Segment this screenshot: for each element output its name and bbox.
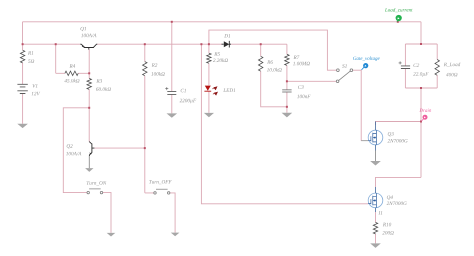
ground below Q2 <box>85 168 93 172</box>
ground below R10 <box>370 243 381 248</box>
label Turn_ON <box>87 181 107 185</box>
label Q2 <box>67 144 73 148</box>
label R3 <box>96 79 102 82</box>
wire load box <box>405 44 437 88</box>
label Q3 <box>388 132 394 136</box>
ground below C3 <box>282 113 293 118</box>
label Q2 value <box>66 152 81 156</box>
label C2 value <box>413 72 428 77</box>
label R5 value <box>213 58 228 62</box>
label R2 <box>152 63 158 66</box>
wire Turn_ON loop <box>63 108 89 193</box>
switch Turn_ON <box>87 189 103 194</box>
label Q4 value <box>387 202 407 206</box>
label Q4 <box>387 195 393 199</box>
wire top rail <box>23 22 422 44</box>
label R_Load value <box>446 73 457 77</box>
transistor Q2 <box>89 142 94 156</box>
label LED1 <box>223 88 235 91</box>
label C2 <box>413 63 419 66</box>
label R_Load <box>444 62 461 66</box>
resistor R2 <box>143 62 147 76</box>
resistor R3 <box>87 78 91 89</box>
resistor R5 <box>207 53 211 63</box>
resistor R7 <box>285 54 289 65</box>
wire Q3 source to ground <box>375 151 377 162</box>
wire bypass to S1 top throw <box>209 30 337 70</box>
label Load_current <box>385 8 413 12</box>
wire second rail middle segment <box>97 43 222 45</box>
battery V1 <box>17 84 27 93</box>
label C1 value <box>180 99 197 104</box>
wire R2 branch top <box>144 44 146 61</box>
resistor R_Load <box>435 60 439 76</box>
MOSFET Q4 <box>368 187 383 212</box>
resistor R4 <box>65 71 78 75</box>
transistor Q1 <box>80 44 97 49</box>
wire R6 branch <box>261 44 287 107</box>
label R6 <box>267 60 273 63</box>
wire second rail left segment <box>23 43 81 45</box>
resistor R1 <box>20 50 24 63</box>
capacitor C1 <box>165 87 176 94</box>
wire Q4 gate run <box>201 44 368 204</box>
wire node to S1 bottom throw <box>287 80 336 82</box>
label C3 <box>298 85 304 88</box>
ground below Q3 <box>370 161 381 166</box>
label Q3 value <box>388 139 408 143</box>
wire R4 branch <box>56 44 89 73</box>
capacitor C3 <box>282 90 291 92</box>
probe Drain <box>421 115 427 121</box>
label R10 <box>383 223 391 227</box>
ground below Turn_OFF <box>171 233 180 237</box>
ground below C1 <box>167 113 178 117</box>
switch S1 <box>336 69 352 83</box>
label Q1 value <box>81 34 96 38</box>
wire LED branch <box>208 44 210 113</box>
wire Q1 base to R3 <box>88 50 90 79</box>
probe Load_current <box>396 15 402 22</box>
ground below battery <box>17 124 28 128</box>
label Q1 <box>80 27 86 31</box>
label Gate_voltage <box>353 56 380 61</box>
wire Q2 emitter to ground <box>88 156 90 168</box>
diode D1 <box>222 41 232 48</box>
capacitor C2 <box>399 61 411 68</box>
wire S1 pole to Q3 gate <box>353 70 362 141</box>
wire R3 to Q2 collector <box>88 89 90 141</box>
label I1 <box>378 211 382 214</box>
probe Gate_voltage <box>362 63 369 70</box>
label C1 <box>181 89 186 92</box>
label R6 value <box>267 68 282 72</box>
label R3 value <box>96 87 111 91</box>
label R4 value <box>64 79 79 83</box>
wire R2 to Turn_OFF <box>145 76 154 193</box>
label D1 <box>224 34 230 37</box>
label R2 value <box>151 72 164 76</box>
label R1 value <box>28 59 34 62</box>
ground below Turn_ON <box>107 233 116 237</box>
wire Turn_ON to ground <box>103 193 111 233</box>
wire drain to Q3 <box>376 122 422 126</box>
resistor R6 <box>259 56 263 71</box>
wire Q4 source to R10 <box>375 212 377 243</box>
junction node dots <box>22 21 422 149</box>
label R1 <box>28 51 33 54</box>
label R4 <box>69 64 75 67</box>
wire Turn_OFF to ground <box>170 193 175 233</box>
wire C1 branch <box>171 22 173 114</box>
label R10 value <box>382 231 393 235</box>
LED LED1 <box>204 86 218 96</box>
label Drain <box>419 109 431 112</box>
label R7 value <box>293 62 310 66</box>
label C3 value <box>297 95 310 99</box>
wire second rail right of D1 <box>230 43 287 45</box>
label V1 value <box>31 92 40 96</box>
label R5 <box>214 52 220 55</box>
switch Turn_OFF <box>154 189 170 194</box>
label V1 <box>32 84 37 88</box>
wire Q2 base <box>94 147 145 149</box>
wire R7 C3 branch <box>286 44 288 113</box>
label S1 <box>342 64 347 67</box>
resistor R10 <box>373 222 377 234</box>
label R7 <box>293 56 299 59</box>
MOSFET Q3 <box>368 122 383 151</box>
wire drain net vertical <box>420 88 422 177</box>
ground below LED1 <box>204 113 214 117</box>
wire drain to Q4 <box>376 177 422 187</box>
wire battery branch <box>22 44 24 124</box>
label Turn_OFF <box>149 180 172 184</box>
